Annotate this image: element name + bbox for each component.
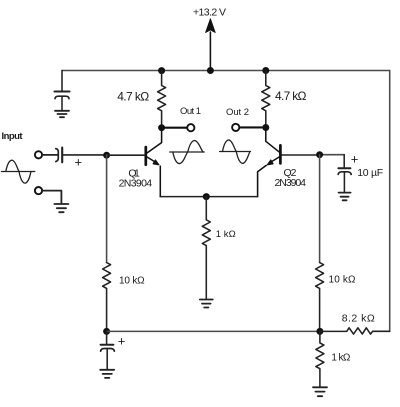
svg-text:Out 1: Out 1 xyxy=(180,106,201,117)
node supply-center (rail / arrow) xyxy=(207,67,214,74)
svg-text:1 kΩ: 1 kΩ xyxy=(216,229,236,240)
svg-text:2N3904: 2N3904 xyxy=(119,177,153,189)
node Q2 base xyxy=(316,151,323,158)
svg-text:10 kΩ: 10 kΩ xyxy=(329,275,357,286)
wire input to coupling cap xyxy=(42,154,58,156)
ground (right 1k) xyxy=(313,387,327,396)
ground (supply bypass) xyxy=(55,111,69,117)
terminal Out 1 xyxy=(187,124,194,131)
svg-text:Input: Input xyxy=(2,131,24,142)
wire bottom rail xyxy=(107,330,320,332)
power arrow +13.2 V xyxy=(206,19,216,71)
svg-text:4.7 kΩ: 4.7 kΩ xyxy=(117,90,149,104)
resistor 10k left xyxy=(103,263,111,332)
wire left bias branch xyxy=(106,155,108,262)
node right bias xyxy=(316,328,323,335)
ground (left bias cap) xyxy=(100,370,114,378)
terminal Out 2 xyxy=(232,124,239,131)
node Out 2 xyxy=(262,124,269,131)
sine symbol at Q1 output xyxy=(170,141,205,164)
transistor Q2 xyxy=(258,128,281,197)
svg-text:10 kΩ: 10 kΩ xyxy=(119,276,145,287)
wire Out 1 stub xyxy=(162,127,187,129)
node supply-right (rail / 4.7k right) xyxy=(262,67,269,74)
svg-text:+: + xyxy=(75,155,83,170)
capacitor left bias bypass xyxy=(101,331,115,368)
svg-text:10 µF: 10 µF xyxy=(357,167,383,179)
wire input bottom to ground xyxy=(42,191,61,203)
wire emitter rail xyxy=(160,196,257,198)
node Out 1 xyxy=(158,124,165,131)
resistor 1k emitter xyxy=(202,197,210,299)
ground (10uF) xyxy=(339,193,351,201)
svg-text:1 kΩ: 1 kΩ xyxy=(331,353,351,364)
node emitter rail xyxy=(203,193,210,200)
resistor 8.2k xyxy=(320,328,390,334)
svg-text:+13.2 V: +13.2 V xyxy=(193,7,226,19)
wire Q2 base xyxy=(281,154,320,156)
wire supply rail top xyxy=(62,70,390,72)
terminal input bottom xyxy=(35,187,42,194)
wire right edge (supply to 8.2k) xyxy=(389,71,391,332)
sine symbol at Q2 output xyxy=(220,140,251,163)
node left bias xyxy=(103,328,110,335)
svg-text:4.7 kΩ: 4.7 kΩ xyxy=(275,89,307,103)
resistor 10k right xyxy=(316,263,324,332)
svg-text:+: + xyxy=(118,334,126,349)
wire right bias branch xyxy=(319,155,321,263)
svg-text:+: + xyxy=(351,152,359,167)
node input / Q1 base xyxy=(103,152,110,159)
svg-text:2N3904: 2N3904 xyxy=(275,177,307,189)
capacitor supply bypass (top-left) xyxy=(55,71,70,110)
node supply-left (rail / 4.7k left) xyxy=(158,67,165,74)
capacitor 10uF xyxy=(338,155,351,192)
svg-text:Out 2: Out 2 xyxy=(226,107,249,118)
svg-text:8.2 kΩ: 8.2 kΩ xyxy=(342,313,375,325)
capacitor input coupling xyxy=(56,148,62,163)
terminal input top xyxy=(35,151,42,158)
wire Q2 base node to 10uF xyxy=(320,154,345,156)
wire Q1 base xyxy=(107,154,145,156)
resistor 4.7k right xyxy=(262,71,270,128)
resistor 1k right xyxy=(316,331,324,386)
wire Out 2 stub xyxy=(239,126,266,128)
sine symbol input source xyxy=(2,160,35,183)
transistor Q1 xyxy=(146,128,162,197)
resistor 4.7k left xyxy=(158,71,166,128)
ground (emitter resistor) xyxy=(200,300,213,308)
ground (input) xyxy=(54,204,68,212)
wire coupling cap to base node xyxy=(63,154,107,156)
